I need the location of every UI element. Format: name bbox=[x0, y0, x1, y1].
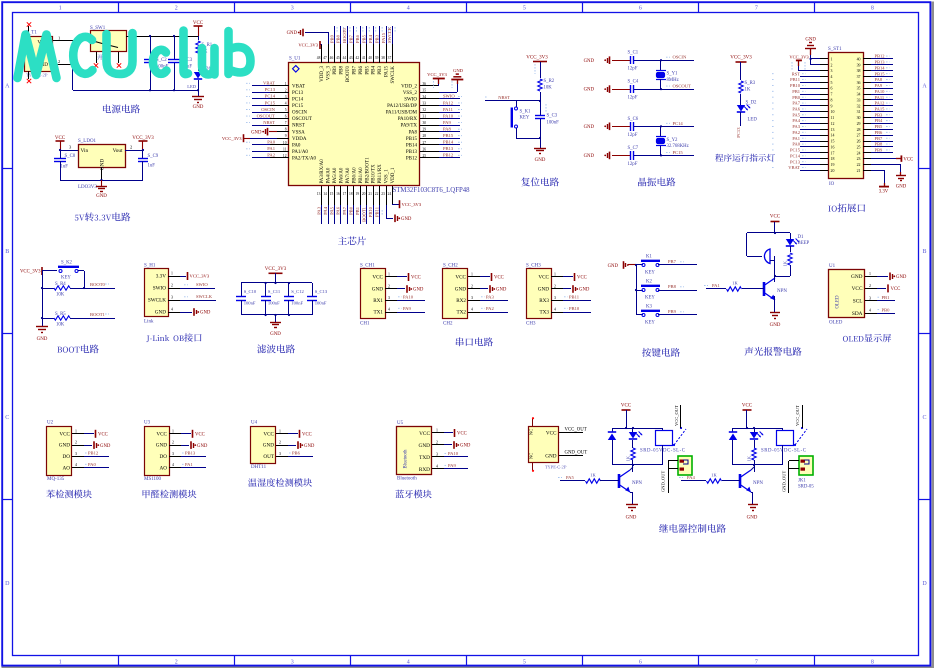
svg-text:1: 1 bbox=[58, 35, 60, 40]
svg-text:4: 4 bbox=[471, 308, 473, 312]
svg-text:CH3: CH3 bbox=[526, 322, 536, 327]
svg-text:PA3/RX/A0: PA3/RX/A0 bbox=[320, 159, 325, 184]
svg-text:PA11: PA11 bbox=[443, 107, 454, 112]
resistor 1K relay led bbox=[631, 448, 635, 460]
svg-text:10K: 10K bbox=[544, 86, 553, 91]
svg-text:PC15: PC15 bbox=[790, 148, 801, 153]
VCC bar Bluetooth bbox=[444, 432, 453, 434]
svg-text:SDA: SDA bbox=[852, 311, 863, 317]
svg-text:1uF: 1uF bbox=[61, 165, 69, 170]
svg-text:PB8: PB8 bbox=[336, 34, 341, 43]
svg-text:A: A bbox=[5, 83, 10, 89]
svg-text:TX3: TX3 bbox=[539, 310, 549, 316]
svg-text:VCC_OUT: VCC_OUT bbox=[565, 428, 587, 433]
svg-text:VCC: VCC bbox=[263, 431, 274, 437]
svg-text:1uF: 1uF bbox=[148, 164, 156, 169]
svg-text:PB8: PB8 bbox=[668, 284, 677, 289]
VCC bar CH3 bbox=[563, 276, 573, 278]
svg-text:AO: AO bbox=[160, 465, 168, 471]
svg-text:PA3: PA3 bbox=[486, 295, 494, 300]
capacitor S_C7 12pF bbox=[630, 151, 632, 160]
svg-text:PA12: PA12 bbox=[875, 101, 885, 106]
capacitor S_C3 100nF bbox=[540, 101, 542, 116]
svg-text:PA15: PA15 bbox=[381, 32, 386, 43]
svg-text:GND: GND bbox=[100, 159, 106, 171]
svg-text:S_LDO1: S_LDO1 bbox=[78, 139, 97, 144]
svg-text:OSCIN: OSCIN bbox=[673, 55, 687, 60]
GND bracket OLED pin1 bbox=[877, 276, 888, 278]
svg-text:GND: GND bbox=[579, 288, 590, 293]
VCC_3V3 bar at MCU VDDA pin9 bbox=[244, 138, 250, 140]
left vertical wire BOOT bbox=[42, 271, 44, 318]
svg-text:SWCLK: SWCLK bbox=[148, 298, 166, 304]
svg-text:PA1/A0: PA1/A0 bbox=[292, 150, 308, 155]
svg-text:12: 12 bbox=[831, 122, 835, 126]
wire crystal row OSCIN bbox=[634, 60, 694, 62]
svg-text:PA1: PA1 bbox=[267, 146, 275, 151]
title sound-light alarm bbox=[745, 347, 802, 356]
svg-text:PB14: PB14 bbox=[443, 140, 454, 145]
svg-text:GND: GND bbox=[200, 311, 211, 316]
resistor S_R2 10K bbox=[534, 64, 536, 74]
svg-text:26: 26 bbox=[857, 140, 861, 144]
svg-text:S_R2: S_R2 bbox=[544, 79, 555, 84]
svg-text:OSCIN: OSCIN bbox=[261, 107, 275, 112]
GND bracket crystal row OSCOUT bbox=[609, 85, 611, 93]
svg-text:A: A bbox=[922, 83, 927, 89]
resistor S_R3 1K bbox=[739, 81, 743, 93]
title relay control circuit bbox=[659, 524, 726, 533]
svg-text:RST: RST bbox=[792, 71, 801, 76]
svg-text:38: 38 bbox=[381, 56, 385, 60]
svg-text:GND: GND bbox=[453, 68, 464, 73]
svg-text:PB9: PB9 bbox=[668, 309, 677, 314]
svg-text:1K: 1K bbox=[626, 455, 631, 461]
svg-text:S_C6: S_C6 bbox=[628, 117, 639, 122]
svg-text:15: 15 bbox=[330, 192, 334, 196]
GND at MCU VSS_2 pin35 bbox=[439, 92, 457, 94]
svg-text:PB7: PB7 bbox=[349, 34, 354, 43]
GND bracket crystal row PC14 bbox=[609, 123, 611, 131]
svg-text:3.3V: 3.3V bbox=[879, 190, 889, 195]
resistor S_R5 10K bbox=[42, 318, 54, 320]
net PB12 U2 bbox=[84, 456, 109, 458]
svg-text:GND: GND bbox=[496, 288, 507, 293]
svg-text:DHT11: DHT11 bbox=[251, 465, 267, 470]
svg-text:VCC_3V3: VCC_3V3 bbox=[526, 56, 548, 61]
connector S_CH2 serial bbox=[443, 269, 468, 319]
svg-text:PB12: PB12 bbox=[443, 153, 454, 158]
svg-text:PA2: PA2 bbox=[267, 153, 275, 158]
svg-text:29: 29 bbox=[423, 128, 427, 132]
svg-text:PB3: PB3 bbox=[378, 66, 383, 75]
connector U4 DHT11 body bbox=[251, 427, 276, 464]
svg-text:U5: U5 bbox=[397, 421, 404, 426]
svg-text:3: 3 bbox=[172, 452, 174, 456]
title filter circuit bbox=[257, 344, 295, 353]
VCC bar CH2 bbox=[480, 276, 490, 278]
svg-text:Bluetooth: Bluetooth bbox=[404, 449, 409, 469]
GND at IO pin22 bbox=[871, 164, 901, 166]
title MS1100 bbox=[143, 490, 197, 499]
svg-text:D: D bbox=[922, 581, 927, 587]
relay top rail bbox=[733, 428, 783, 430]
pin-1 diamond marker bbox=[293, 66, 300, 73]
svg-text:Vout: Vout bbox=[113, 148, 123, 154]
svg-text:S_K1: S_K1 bbox=[520, 110, 532, 115]
svg-text:GND: GND bbox=[896, 185, 907, 190]
svg-text:U4: U4 bbox=[251, 421, 258, 426]
svg-text:1K: 1K bbox=[745, 88, 751, 93]
switch no-connect bottom pins bbox=[96, 52, 98, 63]
svg-text:PB9: PB9 bbox=[875, 148, 884, 153]
VCC_OUT net vertical relay bbox=[802, 405, 804, 428]
svg-text:U3: U3 bbox=[144, 421, 151, 426]
ground GND filter bbox=[275, 315, 277, 322]
svg-text:39: 39 bbox=[857, 63, 861, 67]
svg-text:S_C13: S_C13 bbox=[315, 289, 328, 294]
svg-text:GND: GND bbox=[545, 453, 556, 459]
svg-text:KEY: KEY bbox=[645, 321, 655, 326]
svg-text:SWIO: SWIO bbox=[196, 282, 208, 287]
svg-text:B: B bbox=[5, 249, 9, 255]
svg-text:35: 35 bbox=[857, 87, 861, 91]
svg-text:S_C10: S_C10 bbox=[244, 289, 257, 294]
net PA2 CH2 bbox=[480, 312, 508, 314]
title IO expansion port bbox=[828, 203, 865, 212]
svg-text:VCC_3V3: VCC_3V3 bbox=[789, 55, 809, 60]
screw terminal relay output bbox=[678, 456, 692, 475]
svg-text:23: 23 bbox=[381, 192, 385, 196]
svg-text:GND: GND bbox=[59, 443, 70, 449]
svg-text:GND: GND bbox=[896, 275, 907, 280]
svg-text:PB2/BOOT1: PB2/BOOT1 bbox=[365, 157, 370, 184]
VCC_3V3 bar at IO pin3 bbox=[796, 59, 802, 61]
svg-text:MS1100: MS1100 bbox=[144, 477, 162, 482]
power port VCC bbox=[198, 26, 200, 36]
svg-text:2: 2 bbox=[436, 441, 438, 445]
switch pin 3 wire to VCC rail bbox=[126, 36, 198, 38]
svg-text:SRD-05: SRD-05 bbox=[798, 485, 814, 490]
capacitor S_C11 100nF bbox=[265, 283, 267, 297]
svg-text:PA15: PA15 bbox=[875, 106, 886, 111]
svg-text:1: 1 bbox=[388, 273, 390, 277]
svg-text:SRD-05VDC-SL-C: SRD-05VDC-SL-C bbox=[640, 449, 686, 454]
svg-text:16: 16 bbox=[336, 192, 340, 196]
no-connect stub bottom TYPE-C bbox=[532, 462, 534, 470]
svg-text:PB0: PB0 bbox=[792, 95, 801, 100]
svg-text:PA8: PA8 bbox=[409, 130, 418, 135]
svg-text:VBAT: VBAT bbox=[788, 165, 800, 170]
svg-text:4: 4 bbox=[171, 308, 173, 312]
svg-text:PA3: PA3 bbox=[792, 124, 800, 129]
svg-text:PC14: PC14 bbox=[292, 98, 304, 103]
svg-text:14: 14 bbox=[831, 134, 835, 138]
svg-text:1: 1 bbox=[171, 272, 173, 276]
MCUclub logo bbox=[18, 31, 251, 79]
LED S_D2 bbox=[737, 105, 745, 112]
switch S_SW1 bbox=[91, 31, 127, 52]
svg-text:39: 39 bbox=[375, 56, 379, 60]
svg-text:GND: GND bbox=[270, 332, 281, 337]
svg-text:GND: GND bbox=[401, 217, 412, 222]
svg-text:6: 6 bbox=[285, 115, 287, 119]
svg-text:PB0/A0: PB0/A0 bbox=[352, 167, 357, 184]
svg-text:2: 2 bbox=[172, 441, 174, 445]
svg-text:TX2: TX2 bbox=[456, 310, 466, 316]
title Bluetooth module bbox=[395, 490, 431, 499]
svg-text:NPN: NPN bbox=[777, 289, 787, 294]
svg-text:1K: 1K bbox=[783, 260, 788, 266]
svg-text:VCC: VCC bbox=[457, 432, 467, 437]
svg-text:VSS_2: VSS_2 bbox=[403, 91, 418, 96]
svg-text:PC14: PC14 bbox=[673, 121, 684, 126]
svg-text:GND: GND bbox=[413, 288, 424, 293]
svg-text:PA8: PA8 bbox=[875, 77, 883, 82]
svg-text:GND: GND bbox=[851, 274, 863, 280]
net PA3 CH2 bbox=[480, 300, 508, 302]
svg-text:43: 43 bbox=[349, 56, 353, 60]
svg-text:PB15: PB15 bbox=[406, 137, 418, 142]
no-connect stub top TYPE-C bbox=[532, 419, 534, 427]
svg-text:2: 2 bbox=[171, 284, 173, 288]
svg-text:RX3: RX3 bbox=[539, 298, 549, 304]
svg-text:PA3: PA3 bbox=[316, 206, 321, 214]
svg-text:S_K2: S_K2 bbox=[61, 261, 73, 266]
base resistor 1K relay bbox=[701, 480, 706, 482]
svg-text:37: 37 bbox=[857, 75, 861, 79]
svg-text:4: 4 bbox=[436, 465, 438, 469]
svg-text:25: 25 bbox=[423, 154, 427, 158]
svg-text:PB6: PB6 bbox=[875, 130, 884, 135]
svg-text:PA9: PA9 bbox=[448, 463, 456, 468]
MCU right pins bbox=[420, 85, 439, 87]
svg-text:11: 11 bbox=[831, 116, 835, 120]
svg-text:PA10/RX: PA10/RX bbox=[398, 117, 418, 122]
svg-text:VCC: VCC bbox=[156, 431, 167, 437]
svg-text:PB1/A0: PB1/A0 bbox=[359, 167, 364, 184]
svg-text:GND: GND bbox=[37, 337, 48, 342]
svg-text:4: 4 bbox=[554, 308, 556, 312]
wire VCC_OUT bbox=[559, 432, 583, 434]
svg-text:NRST: NRST bbox=[498, 95, 510, 100]
svg-text:GND: GND bbox=[251, 130, 262, 135]
svg-text:PB7: PB7 bbox=[875, 136, 884, 141]
svg-text:8: 8 bbox=[831, 98, 833, 102]
svg-text:4: 4 bbox=[388, 308, 390, 312]
svg-text:GND: GND bbox=[535, 158, 546, 163]
net PA10 CH1 bbox=[397, 300, 425, 302]
VCC bar OLED pin2 bbox=[877, 288, 886, 290]
svg-text:VBAT: VBAT bbox=[292, 84, 305, 89]
svg-text:BOOT1: BOOT1 bbox=[361, 206, 366, 222]
svg-text:VCC: VCC bbox=[577, 276, 587, 281]
svg-text:1: 1 bbox=[279, 429, 281, 433]
svg-text:PB12: PB12 bbox=[406, 156, 418, 161]
net PA0 U2 bbox=[84, 467, 109, 469]
title MQ-135 bbox=[46, 490, 91, 499]
svg-text:VDD_1: VDD_1 bbox=[391, 167, 396, 183]
svg-text:GND: GND bbox=[584, 88, 595, 93]
alarm top node wires bbox=[747, 232, 790, 234]
svg-text:GND: GND bbox=[584, 125, 595, 130]
LED D1 bbox=[194, 72, 202, 79]
title key circuit bbox=[642, 348, 680, 357]
svg-text:BOOT0: BOOT0 bbox=[346, 66, 351, 83]
svg-text:12pF: 12pF bbox=[628, 133, 638, 138]
VCC_3V3 power at MCU VDD_2 pin36 bbox=[438, 85, 440, 87]
svg-text:S_R5: S_R5 bbox=[55, 312, 66, 317]
GND bracket U2 bbox=[84, 445, 92, 447]
GND bracket crystal row PC15 bbox=[609, 152, 611, 160]
base resistor 1K alarm bbox=[720, 288, 726, 290]
svg-text:PA1: PA1 bbox=[792, 136, 800, 141]
svg-text:OUT: OUT bbox=[263, 454, 274, 460]
svg-text:RXD: RXD bbox=[419, 467, 430, 473]
svg-text:Vin: Vin bbox=[81, 148, 89, 154]
svg-text:PB11: PB11 bbox=[790, 77, 800, 82]
svg-text:VSSA: VSSA bbox=[292, 130, 305, 135]
flyback diode relay bbox=[732, 428, 734, 432]
GND bracket CH1 bbox=[397, 288, 405, 290]
svg-text:DO: DO bbox=[160, 454, 168, 460]
resistor S_R4 10K bbox=[42, 288, 54, 290]
GND bracket Bluetooth bbox=[444, 444, 452, 446]
svg-text:4: 4 bbox=[75, 463, 77, 467]
connector S_T1 TYPE-C power input bbox=[25, 37, 53, 72]
relay bottom rail bbox=[612, 464, 662, 466]
svg-text:PB13: PB13 bbox=[875, 60, 886, 65]
svg-text:41: 41 bbox=[362, 56, 366, 60]
svg-text:PA2: PA2 bbox=[792, 130, 800, 135]
svg-text:PA6: PA6 bbox=[336, 206, 341, 214]
svg-text:31: 31 bbox=[423, 115, 427, 119]
GND bracket U3 bbox=[181, 445, 189, 447]
svg-text:S_C4: S_C4 bbox=[628, 80, 639, 85]
svg-text:4: 4 bbox=[869, 309, 871, 313]
svg-text:1: 1 bbox=[172, 429, 174, 433]
svg-text:PA4: PA4 bbox=[687, 475, 695, 480]
svg-text:3.3V: 3.3V bbox=[156, 274, 166, 280]
wire T1 pin1 to switch bbox=[53, 40, 90, 42]
svg-text:12: 12 bbox=[283, 154, 287, 158]
svg-text:PB6: PB6 bbox=[355, 34, 360, 43]
GND bracket U4 bbox=[288, 445, 296, 447]
svg-text:4: 4 bbox=[407, 659, 410, 665]
svg-text:PA5/A0: PA5/A0 bbox=[333, 167, 338, 183]
bottom rail 5V3V3 bbox=[60, 180, 143, 182]
svg-text:GND: GND bbox=[419, 443, 431, 449]
svg-text:PA4/A0: PA4/A0 bbox=[327, 167, 332, 183]
svg-text:VCC: VCC bbox=[419, 431, 430, 437]
svg-text:C: C bbox=[5, 415, 9, 421]
svg-text:CH1: CH1 bbox=[360, 322, 370, 327]
svg-text:4: 4 bbox=[831, 75, 833, 79]
net SWCLK J-Link bbox=[180, 300, 216, 302]
svg-text:PA4: PA4 bbox=[792, 118, 800, 123]
svg-text:PA11: PA11 bbox=[875, 95, 885, 100]
svg-text:9: 9 bbox=[285, 134, 287, 138]
svg-text:14: 14 bbox=[323, 192, 327, 196]
VCC bar at IO pin23 bbox=[871, 158, 896, 160]
svg-text:PB0: PB0 bbox=[882, 307, 891, 312]
svg-text:PA1: PA1 bbox=[712, 283, 720, 288]
svg-text:2: 2 bbox=[554, 285, 556, 289]
key S_K1 KEY reset button bbox=[516, 101, 518, 107]
svg-text:VCC_3V3: VCC_3V3 bbox=[265, 267, 287, 272]
wire crystal row PC15 bbox=[634, 155, 694, 157]
svg-text:VCC: VCC bbox=[891, 287, 901, 292]
net PB11 CH3 bbox=[563, 300, 591, 302]
svg-text:PC15: PC15 bbox=[265, 100, 276, 105]
svg-text:PC13: PC13 bbox=[736, 127, 741, 138]
svg-text:17: 17 bbox=[831, 151, 835, 155]
title BOOT circuit bbox=[57, 344, 98, 353]
LED D1 BEEP bbox=[790, 233, 792, 239]
svg-text:20: 20 bbox=[831, 169, 835, 173]
svg-text:PA10: PA10 bbox=[403, 295, 414, 300]
svg-text:VSS_1: VSS_1 bbox=[385, 169, 390, 184]
svg-text:GND: GND bbox=[304, 444, 315, 449]
svg-text:19: 19 bbox=[355, 192, 359, 196]
svg-text:PA5: PA5 bbox=[329, 206, 334, 214]
title program run indicator bbox=[715, 154, 775, 162]
svg-text:PA10: PA10 bbox=[448, 451, 459, 456]
svg-text:1K: 1K bbox=[711, 473, 717, 478]
svg-text:PA10: PA10 bbox=[875, 89, 886, 94]
svg-text:OSCOUT: OSCOUT bbox=[292, 117, 312, 122]
net SWIO J-Link bbox=[180, 288, 215, 290]
title serial circuit bbox=[456, 337, 493, 346]
wire crystal row PC14 bbox=[634, 126, 694, 128]
svg-text:10: 10 bbox=[831, 110, 835, 114]
svg-text:PB12: PB12 bbox=[875, 54, 885, 59]
key K1 KEY bbox=[636, 264, 643, 266]
svg-text:32: 32 bbox=[423, 108, 427, 112]
svg-text:36: 36 bbox=[423, 82, 427, 86]
svg-text:GND: GND bbox=[608, 264, 619, 269]
title power circuit bbox=[103, 104, 140, 113]
svg-text:30: 30 bbox=[857, 116, 861, 120]
svg-text:PB13: PB13 bbox=[443, 146, 454, 151]
svg-text:1: 1 bbox=[75, 429, 77, 433]
svg-text:GND: GND bbox=[96, 194, 107, 199]
svg-text:VCC: VCC bbox=[494, 276, 504, 281]
svg-text:PA0: PA0 bbox=[792, 142, 800, 147]
svg-text:2: 2 bbox=[75, 441, 77, 445]
svg-text:40: 40 bbox=[857, 57, 861, 61]
wire to power ground bbox=[198, 90, 200, 97]
svg-text:PA5: PA5 bbox=[566, 475, 574, 480]
svg-text:LDO3V3: LDO3V3 bbox=[78, 185, 97, 190]
svg-text:19: 19 bbox=[831, 163, 835, 167]
net PB6 U4 bbox=[288, 456, 313, 458]
connector U3 MS1100 body bbox=[145, 427, 170, 476]
connector U2 MQ-135 body bbox=[47, 427, 72, 476]
svg-text:34: 34 bbox=[423, 95, 427, 99]
svg-text:S_C2: S_C2 bbox=[156, 58, 167, 63]
svg-text:PB1: PB1 bbox=[882, 295, 891, 300]
svg-text:SCL: SCL bbox=[853, 299, 863, 305]
svg-text:VCC_3V3: VCC_3V3 bbox=[132, 136, 154, 141]
svg-text:GND: GND bbox=[626, 516, 637, 521]
svg-text:VCC_OUT: VCC_OUT bbox=[795, 405, 800, 426]
relay coil SRD-05VDC-SL-C bbox=[777, 431, 794, 446]
svg-text:CH2: CH2 bbox=[443, 322, 453, 327]
svg-text:RX1: RX1 bbox=[373, 298, 383, 304]
svg-text:PB4: PB4 bbox=[372, 66, 377, 75]
svg-text:VCC_3V3: VCC_3V3 bbox=[298, 43, 318, 48]
